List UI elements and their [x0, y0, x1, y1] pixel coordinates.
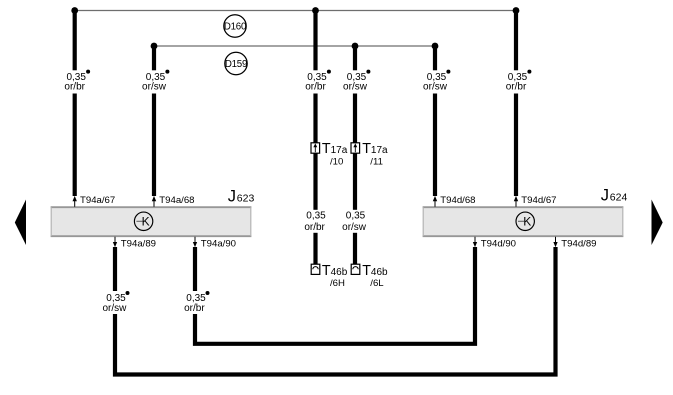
wire bus D159 horizontal — [154, 45, 435, 47]
continuation arrow left — [15, 200, 26, 246]
svg-text:0,35: 0,35 — [346, 210, 366, 221]
svg-text:D159: D159 — [225, 59, 247, 70]
wire label 0,35 or/br on W8 — [177, 291, 214, 314]
wire label 0,35 or/sw on W5 — [416, 70, 454, 94]
svg-text:or/sw: or/sw — [423, 82, 448, 93]
wire W8 (T94a/90 to T94d/90, inner loop) — [195, 247, 475, 344]
connector T46b/6L (wire end socket) — [351, 263, 388, 289]
wire W3 vertical (or/br to T46b/6H) — [313, 11, 317, 265]
svg-text:or/sw: or/sw — [343, 82, 368, 93]
wire W1 vertical (or/br to T94a/67) — [73, 11, 77, 197]
connector T17a/10 (in-line connector symbol) — [311, 141, 348, 167]
svg-text:T94d/68: T94d/68 — [440, 195, 475, 206]
wire bus D160 horizontal — [75, 10, 516, 12]
continuation arrow right — [652, 200, 663, 246]
svg-text:/6H: /6H — [330, 278, 345, 289]
wire W5 vertical (or/sw to T94d/68) — [433, 46, 437, 196]
svg-text:/11: /11 — [370, 156, 383, 167]
control unit J623 (box) — [51, 188, 255, 237]
wire label 0,35 or/br mid W3 — [298, 210, 334, 233]
wire W6 vertical (or/br to T94d/67) — [514, 11, 518, 197]
svg-text:T: T — [322, 141, 331, 157]
svg-text:or/br: or/br — [64, 82, 85, 93]
svg-text:T94d/90: T94d/90 — [481, 238, 516, 249]
svg-text:or/br: or/br — [184, 303, 205, 314]
svg-text:T: T — [322, 263, 331, 279]
K-wire symbol in J624 — [516, 212, 534, 230]
svg-text:623: 623 — [237, 193, 255, 205]
svg-text:T94a/68: T94a/68 — [159, 195, 194, 206]
control unit J624 (box) — [423, 186, 628, 236]
svg-text:T94a/90: T94a/90 — [201, 238, 236, 249]
svg-text:46b: 46b — [371, 267, 388, 278]
pin T94a/67 (terminal arrow + label) — [73, 195, 116, 207]
svg-text:17a: 17a — [371, 145, 388, 156]
svg-text:624: 624 — [610, 191, 628, 203]
node D160 (designator circle) — [224, 15, 247, 37]
svg-text:J: J — [601, 186, 609, 204]
svg-text:or/br: or/br — [305, 82, 326, 93]
svg-text:D160: D160 — [224, 21, 247, 32]
svg-text:0,35: 0,35 — [306, 210, 326, 221]
pin T94a/68 (terminal arrow + label) — [152, 195, 195, 207]
svg-text:J: J — [228, 188, 236, 206]
wire label 0,35 or/br on W6 — [497, 70, 535, 94]
junction node on D159 at W4 — [352, 43, 359, 50]
svg-text:T94a/67: T94a/67 — [80, 195, 115, 206]
wire label 0,35 or/sw mid W4 — [337, 210, 373, 233]
connector T46b/6H (wire end socket) — [311, 263, 348, 289]
junction node on D160 at W3 — [312, 7, 319, 14]
svg-text:T: T — [362, 141, 371, 157]
svg-text:or/sw: or/sw — [102, 303, 127, 314]
svg-text:or/sw: or/sw — [342, 222, 367, 233]
svg-text:17a: 17a — [331, 145, 348, 156]
pin T94d/90 (terminal arrow + label) — [473, 237, 516, 250]
pin T94a/90 (terminal arrow + label) — [193, 237, 236, 250]
svg-text:/6L: /6L — [370, 278, 384, 289]
svg-text:T94d/89: T94d/89 — [561, 238, 596, 249]
svg-text:46b: 46b — [331, 267, 348, 278]
junction node on D159 at W2 — [151, 43, 158, 50]
svg-text:K: K — [142, 215, 150, 229]
pin T94d/68 (terminal arrow + label) — [433, 195, 476, 207]
wire label 0,35 or/sw on W7 — [97, 291, 134, 314]
connector T17a/11 (in-line connector symbol) — [351, 141, 388, 167]
svg-text:/10: /10 — [330, 156, 343, 167]
svg-text:K: K — [523, 215, 531, 229]
junction node on D159 at W5 — [432, 43, 439, 50]
pin T94d/67 (terminal arrow + label) — [514, 195, 557, 207]
junction node on D160 at W6 — [513, 7, 520, 14]
wire label 0,35 or/br on W3 — [297, 70, 335, 94]
svg-text:or/sw: or/sw — [142, 82, 167, 93]
wire W4 vertical (or/sw to T46b/6L) — [353, 46, 357, 265]
wire W2 vertical (or/sw to T94a/68) — [152, 46, 156, 196]
wire label 0,35 or/br on W1 — [56, 70, 94, 94]
K-wire symbol in J623 — [134, 212, 152, 230]
junction node on D160 at W1 — [71, 7, 78, 14]
svg-text:T94a/89: T94a/89 — [121, 238, 156, 249]
svg-text:T: T — [362, 263, 371, 279]
wire label 0,35 or/sw on W2 — [135, 70, 173, 94]
node D159 (designator circle) — [225, 52, 247, 74]
wire W7 (T94a/89 to T94d/89, outer loop) — [115, 247, 556, 375]
svg-text:or/br: or/br — [506, 82, 527, 93]
pin T94d/89 (terminal arrow + label) — [553, 237, 596, 250]
wire label 0,35 or/sw on W4 — [336, 70, 374, 94]
svg-text:T94d/67: T94d/67 — [521, 195, 556, 206]
svg-text:or/br: or/br — [304, 222, 325, 233]
pin T94a/89 (terminal arrow + label) — [113, 237, 156, 250]
